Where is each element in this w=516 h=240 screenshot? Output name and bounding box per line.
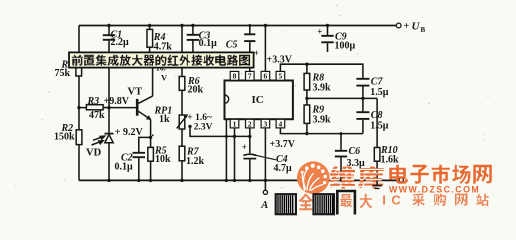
label R4	[153, 32, 173, 53]
wire C3 branch	[192, 26, 194, 53]
capacitor C9	[321, 36, 333, 43]
resistor R4	[147, 29, 153, 47]
wire pin5 to 3.3V rail then C7	[280, 64, 363, 78]
label C9 polarity	[317, 26, 322, 36]
node R7 ground junction	[180, 179, 183, 182]
svg-text:7: 7	[248, 72, 252, 81]
wire mid feedback rail	[307, 97, 377, 99]
watermark title 电子市场网	[389, 165, 492, 184]
wire R9 bottom	[306, 123, 308, 133]
label C4	[274, 154, 293, 174]
svg-text:0.1μ: 0.1μ	[115, 161, 134, 172]
watermark char 最	[340, 194, 352, 207]
node C2 ground junction	[137, 179, 140, 182]
watermark logo circle	[297, 161, 330, 194]
label RP1	[154, 106, 173, 126]
node base junction	[107, 106, 110, 109]
label R3	[87, 96, 106, 121]
wire R10 drop	[376, 98, 378, 147]
node C6 ground junction	[340, 179, 343, 182]
svg-text:WWW.DZSC.COM: WWW.DZSC.COM	[389, 184, 480, 194]
wire C9 stub	[327, 43, 329, 52]
node C1 top rail junction	[107, 24, 110, 27]
resistor R8	[304, 73, 310, 90]
label C7	[370, 77, 389, 99]
wire C2 jog	[139, 137, 151, 152]
pin 8	[230, 71, 239, 80]
wire C5 branch	[249, 26, 251, 72]
resistor R10	[374, 148, 380, 162]
label C9	[335, 32, 356, 52]
svg-text:C6: C6	[349, 146, 361, 157]
svg-text:1.5μ: 1.5μ	[370, 120, 389, 131]
terminal +UB	[396, 23, 401, 28]
wire R6 branch	[181, 26, 183, 77]
svg-text:+3.3V: +3.3V	[267, 55, 293, 66]
svg-text:+3.7V: +3.7V	[270, 139, 296, 150]
svg-text:3: 3	[264, 119, 268, 128]
watermark title 维库	[330, 166, 384, 189]
svg-text:1: 1	[233, 119, 237, 128]
label R2	[54, 123, 75, 143]
wire R5 to ground	[150, 161, 152, 180]
node R5 ground junction	[149, 179, 152, 182]
resistor R5	[148, 147, 154, 161]
light arrows into VD	[92, 136, 105, 145]
label C6	[347, 146, 366, 169]
watermark url	[389, 184, 480, 194]
pin 5	[276, 71, 285, 80]
label C2	[115, 153, 134, 173]
node wiper wire x icgnd	[225, 135, 228, 138]
op-amp IC body	[225, 81, 293, 120]
svg-text:150k: 150k	[54, 131, 75, 142]
svg-text:4.7μ: 4.7μ	[274, 163, 293, 174]
wire collector	[152, 67, 154, 96]
svg-text:6: 6	[264, 72, 268, 81]
svg-text:10k: 10k	[155, 154, 171, 165]
svg-text:I: I	[382, 193, 386, 208]
resistor R3	[86, 105, 103, 110]
capacitor C6	[335, 151, 347, 157]
pin 4	[276, 119, 285, 128]
svg-text:4.7k: 4.7k	[154, 42, 173, 53]
node 3.7V C6 junction	[340, 132, 343, 135]
svg-text:+9.8V: +9.8V	[104, 96, 130, 107]
wire C1 branch top	[108, 26, 110, 35]
tooltip label box	[69, 52, 254, 67]
label R1	[55, 60, 74, 80]
wire IC substrate ground	[225, 119, 227, 180]
node VD ground junction	[107, 179, 110, 182]
watermark char 采	[413, 193, 425, 206]
watermark char I	[382, 193, 386, 208]
label R9	[312, 105, 332, 126]
label C4 leader	[256, 155, 276, 160]
pin 1	[230, 119, 239, 128]
svg-text:0.1μ: 0.1μ	[199, 38, 218, 49]
svg-text:VD: VD	[86, 147, 102, 158]
svg-text:100μ: 100μ	[335, 41, 356, 52]
watermark hatched box 1	[276, 194, 296, 214]
resistor R7	[179, 146, 185, 161]
label VT	[128, 87, 143, 98]
svg-text:1.6k: 1.6k	[381, 155, 400, 166]
label bias +1.6~2.3V	[187, 113, 212, 132]
wire 3.7V rail	[280, 128, 363, 134]
svg-text:20k: 20k	[188, 85, 204, 96]
svg-text:5: 5	[279, 72, 283, 81]
pin 2	[246, 119, 255, 128]
potentiometer RP1	[177, 114, 189, 129]
label +UB	[404, 21, 426, 34]
svg-text:2: 2	[248, 119, 252, 128]
label C8	[370, 110, 389, 132]
wire A stub	[264, 180, 266, 190]
pin 3	[261, 119, 270, 128]
label +9.2V	[115, 127, 154, 138]
watermark char 全	[299, 194, 313, 211]
svg-text:A: A	[260, 200, 268, 211]
wire R8 top stub	[306, 64, 308, 73]
svg-text:C5: C5	[226, 39, 238, 50]
svg-text:U: U	[412, 21, 421, 33]
label VD	[86, 147, 102, 158]
label R7	[186, 147, 205, 167]
svg-text:2.3V: 2.3V	[194, 122, 213, 132]
transistor VT	[136, 96, 153, 120]
capacitor C7	[356, 79, 369, 86]
wire C2 to ground	[138, 158, 140, 180]
watermark bracket around 最	[337, 191, 355, 215]
capacitor C2	[133, 153, 145, 157]
node pin6 rail junction	[264, 24, 267, 27]
resistor R6	[179, 77, 185, 91]
resistor R2	[76, 130, 82, 145]
wire C4 to ground	[249, 159, 251, 180]
svg-text:B: B	[421, 26, 426, 34]
wire wiper to pin1 pin2	[190, 126, 250, 136]
svg-text:C: C	[391, 192, 401, 207]
label R6	[187, 76, 204, 96]
svg-text:R3: R3	[87, 96, 100, 107]
node pin3 ground junction	[264, 179, 267, 182]
pin 6	[261, 71, 270, 80]
svg-text:V: V	[161, 73, 168, 83]
terminal A	[263, 190, 267, 194]
svg-text:C7: C7	[371, 77, 384, 88]
wire R6 to RP1	[181, 90, 183, 115]
wire pin1 to ground	[234, 128, 236, 180]
capacitor C4	[243, 154, 256, 158]
wire C1 to base node	[108, 41, 110, 108]
label +3.7V	[270, 139, 296, 150]
label +9.8V	[104, 96, 130, 107]
label C1	[111, 30, 130, 48]
tooltip label text	[72, 55, 250, 66]
watermark char 购	[434, 193, 446, 206]
capacitor C3	[187, 35, 199, 40]
svg-text:+: +	[254, 48, 259, 58]
svg-text:IC: IC	[252, 94, 264, 106]
capacitor C1	[103, 35, 115, 40]
svg-text:2.2μ: 2.2μ	[111, 37, 130, 48]
wire R4 branch	[149, 26, 151, 54]
capacitor C5	[244, 34, 255, 41]
watermark char 站	[476, 194, 489, 207]
svg-text:1.2k: 1.2k	[186, 156, 205, 167]
watermark char 网	[455, 194, 468, 206]
label R8	[312, 73, 332, 94]
ground symbol	[372, 180, 382, 188]
wire base rail	[79, 107, 137, 109]
svg-text:47k: 47k	[89, 110, 105, 121]
label IC	[252, 94, 264, 106]
wire photodiode branch	[108, 108, 110, 181]
wire pin3 to ground	[264, 128, 266, 180]
svg-text:8: 8	[233, 72, 237, 81]
wire RP1 to R7	[181, 129, 183, 146]
svg-text:+: +	[242, 142, 247, 152]
wire emitter	[150, 120, 152, 148]
wire pin6 to rail	[264, 26, 266, 72]
wire R10 to ground	[376, 161, 378, 180]
node 3.7V R9 junction	[305, 132, 308, 135]
wire C6 branch	[340, 134, 342, 150]
svg-text:4: 4	[279, 119, 283, 128]
node C5 rail junction	[248, 24, 251, 27]
svg-text:+: +	[404, 21, 410, 32]
label C4 polarity	[242, 142, 247, 152]
label C3	[199, 30, 218, 49]
label +3.3V	[267, 55, 293, 66]
wire R7 to ground	[181, 161, 183, 181]
watermark hatched box 2	[314, 194, 335, 214]
node C3 rail junction	[191, 24, 194, 27]
node mid left junction	[305, 97, 308, 100]
wire R8 to node	[306, 90, 308, 105]
svg-text:3.9k: 3.9k	[313, 83, 332, 94]
svg-text:1.5μ: 1.5μ	[370, 87, 389, 98]
node emitter junction	[149, 136, 152, 139]
wire bottom ground rail	[79, 179, 399, 181]
node wiper wire end pin2	[248, 135, 251, 138]
node R6 rail junction	[180, 24, 183, 27]
node wiper wire x pin1	[233, 135, 236, 138]
svg-text:+: +	[317, 26, 322, 36]
watermark char C	[391, 192, 401, 207]
label collector voltage partial	[156, 63, 168, 82]
node C9 rail junction	[326, 24, 329, 27]
node icgnd ground junction	[225, 179, 228, 182]
wire C8 bottom	[362, 120, 364, 134]
svg-text:1k: 1k	[159, 114, 170, 125]
label R5	[154, 146, 171, 165]
wire C9 branch	[327, 26, 329, 36]
label A	[260, 200, 268, 211]
node R8 top junction	[305, 62, 308, 65]
node R4 rail junction	[148, 24, 151, 27]
wire C6 to ground	[340, 157, 342, 180]
label R10	[380, 145, 399, 166]
label C5 polarity	[254, 48, 259, 58]
node base-left junction	[77, 106, 80, 109]
terminal B right	[399, 178, 403, 182]
wire top supply rail	[79, 25, 396, 27]
node RP1 wiper junction	[188, 125, 191, 128]
wire C7 bottom	[362, 86, 364, 111]
node mid right junction	[361, 97, 364, 100]
pin 7	[246, 71, 255, 80]
svg-text:VT: VT	[128, 87, 143, 98]
resistor R9	[304, 105, 310, 123]
resistor R1	[76, 58, 82, 77]
photodiode VD	[105, 134, 114, 143]
label C5	[226, 39, 238, 50]
watermark char 大	[360, 194, 372, 209]
node C4 ground junction	[248, 179, 251, 182]
wire pin2 branch	[249, 128, 251, 153]
svg-text:75k: 75k	[55, 68, 71, 79]
capacitor C8	[356, 112, 369, 119]
svg-text:3.9k: 3.9k	[313, 115, 332, 126]
svg-text:+ 9.2V: + 9.2V	[115, 127, 144, 138]
wire left branch vertical	[78, 26, 80, 181]
node pin1 ground junction	[233, 179, 236, 182]
